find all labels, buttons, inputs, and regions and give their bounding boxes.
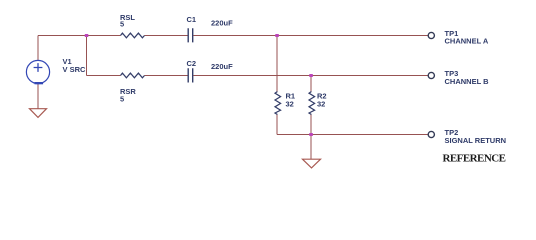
wire — [193, 75, 428, 77]
label RSR value — [120, 87, 136, 103]
svg-text:5: 5 — [120, 19, 124, 28]
wire — [37, 36, 39, 61]
title REFERENCE — [443, 153, 506, 165]
terminal TP3 — [428, 72, 434, 78]
svg-text:220uF: 220uF — [211, 62, 233, 71]
junction node railA/R1 — [275, 34, 279, 37]
resistor R1 — [275, 92, 281, 115]
terminal TP2 — [428, 131, 434, 137]
resistor RSR — [121, 73, 145, 78]
capacitor C1 — [188, 28, 193, 42]
wire — [86, 36, 88, 76]
svg-text:CHANNEL B: CHANNEL B — [445, 77, 490, 86]
svg-text:220uF: 220uF — [211, 19, 233, 28]
label RSL value — [120, 13, 135, 28]
voltage source V1 — [26, 60, 49, 84]
junction node railA/branch — [85, 34, 89, 37]
wire — [37, 84, 39, 109]
label C2 value — [187, 59, 234, 71]
label TP3 — [445, 69, 490, 86]
ground (return) — [303, 159, 321, 168]
svg-text:CHANNEL A: CHANNEL A — [445, 36, 489, 45]
ground (source) — [30, 109, 47, 118]
svg-text:C2: C2 — [187, 59, 197, 68]
svg-text:32: 32 — [317, 100, 325, 109]
junction node railC/gnd — [309, 133, 313, 136]
label C1 value — [187, 15, 234, 28]
svg-text:REFERENCE: REFERENCE — [443, 153, 506, 165]
wire — [38, 35, 121, 37]
label R2 value — [317, 91, 327, 108]
resistor R2 — [309, 92, 315, 115]
svg-text:SIGNAL RETURN: SIGNAL RETURN — [445, 136, 507, 145]
wire — [276, 36, 278, 92]
wire — [193, 35, 428, 37]
wire — [87, 75, 121, 77]
wire — [145, 75, 188, 77]
label R1 value — [286, 91, 296, 108]
junction node railB/R2 — [309, 74, 313, 77]
label TP1 — [445, 29, 489, 46]
wire — [145, 35, 188, 37]
wire — [310, 76, 312, 92]
label V1 value — [63, 57, 87, 74]
resistor RSL — [121, 33, 145, 38]
label TP2 — [445, 128, 507, 145]
wire — [310, 115, 312, 135]
wire — [310, 135, 312, 160]
wire — [276, 115, 278, 135]
capacitor C2 — [188, 68, 193, 82]
svg-text:32: 32 — [286, 100, 294, 109]
svg-text:V SRC: V SRC — [63, 65, 87, 74]
svg-text:5: 5 — [120, 95, 124, 104]
svg-text:C1: C1 — [187, 15, 197, 24]
terminal TP1 — [428, 32, 434, 38]
wire — [277, 134, 428, 136]
